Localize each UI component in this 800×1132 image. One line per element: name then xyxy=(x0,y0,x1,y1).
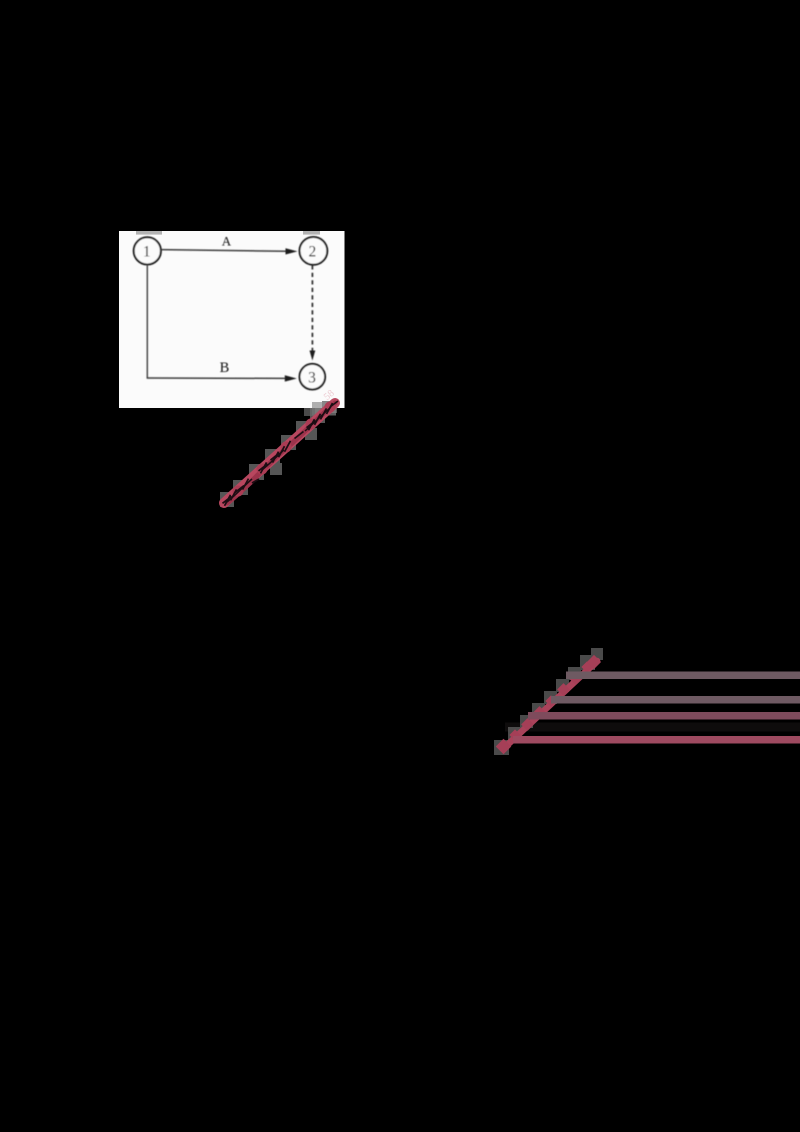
arrow B (activity 1 to 3) xyxy=(147,375,297,381)
noise band between bars xyxy=(505,723,800,732)
gray smudge top edge right xyxy=(303,231,320,235)
white panel xyxy=(119,231,345,408)
node 3 xyxy=(300,364,326,390)
gray smudge top edge left xyxy=(136,231,162,235)
dashed dummy arrow (2 to 3) xyxy=(310,265,316,360)
node 1 xyxy=(134,237,161,264)
wire: vertical from node 1 xyxy=(146,265,148,378)
arrow A (activity 1 to 2) xyxy=(161,248,297,254)
horizontal bar 3 xyxy=(528,712,800,720)
red streak 2: crimson line with blobs xyxy=(496,655,601,754)
red scribble streak 1: dark jagged marks xyxy=(223,401,339,506)
red scribble streak 1: gray patches xyxy=(220,401,337,507)
svg-text:B: B xyxy=(220,360,230,376)
svg-text:A: A xyxy=(222,233,232,248)
horizontal bar 1 xyxy=(566,672,800,680)
red scribble streak 1: knots xyxy=(233,402,336,497)
horizontal bar 4 xyxy=(513,736,800,744)
red streak 2: gray staircase patches xyxy=(494,648,603,755)
red scribble streak 1: crimson band xyxy=(224,403,335,503)
horizontal bar 2 xyxy=(551,696,800,704)
gray patch over white corner xyxy=(312,402,336,416)
svg-text:1: 1 xyxy=(143,243,151,260)
svg-text:2: 2 xyxy=(309,244,317,261)
svg-text:3: 3 xyxy=(308,370,316,387)
node 2 xyxy=(300,237,328,265)
